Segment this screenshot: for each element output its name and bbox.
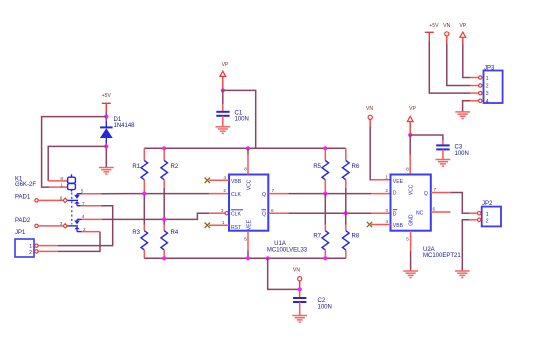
wire top rail — [144, 147, 345, 149]
svg-text:5: 5 — [406, 237, 409, 242]
pin stub U1A pin8 VCC — [247, 148, 249, 174]
node VN (top right power symbol) — [445, 32, 449, 36]
wire VP down to C1 junction — [222, 76, 224, 92]
pin stub U2A pin5 GND — [410, 231, 412, 271]
wire junction to C2 — [299, 289, 301, 297]
wire C3 to ground — [442, 149, 444, 159]
wire C2 branch from rail — [268, 258, 300, 289]
wire JP1 pin2 to relay pin 2 — [38, 232, 100, 252]
wire VN to junction — [299, 281, 301, 290]
svg-text:MC100LVEL33: MC100LVEL33 — [267, 247, 308, 253]
svg-text:U2A: U2A — [423, 247, 435, 253]
svg-text:D: D — [393, 212, 397, 218]
svg-text:CLK: CLK — [231, 192, 242, 198]
svg-text:VP: VP — [459, 23, 466, 29]
svg-text:7: 7 — [434, 187, 437, 192]
svg-text:R5: R5 — [313, 164, 321, 170]
svg-text:R8: R8 — [352, 234, 360, 240]
node +5V (left power symbol) — [102, 103, 111, 111]
svg-text:7: 7 — [272, 188, 275, 193]
svg-text:1: 1 — [486, 76, 489, 82]
node junction rail/R5 — [323, 146, 327, 150]
svg-text:Q: Q — [424, 191, 428, 197]
wire R2/R4 column between CLKbar line and R4 — [163, 219, 165, 230]
ground below C3 — [436, 160, 451, 167]
svg-text:R7: R7 — [313, 234, 321, 240]
wire VP to JP3 pin1 — [463, 37, 479, 77]
pin name Qbar (U1A) — [262, 210, 267, 218]
svg-text:1: 1 — [385, 174, 388, 179]
wire +5V to JP3 pin3 — [429, 40, 478, 93]
ground below JP3 — [455, 112, 470, 119]
svg-text:VCC: VCC — [247, 179, 253, 190]
svg-text:R3: R3 — [132, 230, 140, 236]
pin stub relay pin 1 — [49, 186, 68, 188]
pin circle JP3-1 — [479, 76, 482, 79]
svg-text:R4: R4 — [171, 230, 179, 236]
svg-text:1: 1 — [486, 212, 489, 218]
no-connect X on U1A pin4 — [205, 178, 210, 183]
wire Q line (U1A pin7 to U2A pin2) — [268, 193, 390, 195]
svg-text:PAD1: PAD1 — [15, 195, 31, 201]
node junction VN/C2 — [298, 287, 302, 291]
node junction CLKbar/R2R4 — [162, 217, 166, 221]
connector JP3 — [484, 71, 503, 104]
pin circle JP1-1 — [35, 244, 38, 247]
svg-text:3: 3 — [221, 208, 224, 213]
svg-text:VP: VP — [409, 106, 416, 112]
wire R6/R8 column between Qbar line and R8 — [345, 213, 347, 231]
svg-text:R1: R1 — [132, 164, 140, 170]
relay K1 linkage (dashed) — [71, 193, 73, 225]
svg-text:VN: VN — [293, 268, 300, 274]
svg-text:6: 6 — [433, 207, 436, 212]
wire U2A Q pin7 to JP2 pin1 — [431, 193, 478, 214]
svg-text:VBB: VBB — [231, 179, 242, 185]
capacitor C1 — [216, 112, 229, 116]
clock edge arrow U1A pin 2 — [230, 191, 233, 196]
node B junction at D1 anode — [104, 144, 108, 148]
svg-text:8: 8 — [406, 167, 409, 172]
svg-text:VN: VN — [366, 106, 373, 112]
node junction rail/R2 — [162, 146, 166, 150]
wire C1 to ground — [222, 116, 224, 127]
node junction rail/C2 branch — [266, 256, 270, 260]
resistor R3 — [141, 231, 148, 259]
svg-text:PAD2: PAD2 — [15, 218, 31, 224]
svg-text:D: D — [393, 191, 397, 197]
wire C3 branch — [410, 135, 443, 141]
svg-text:G6K-2F: G6K-2F — [15, 182, 36, 188]
pin circle JP3-2 — [479, 84, 482, 87]
connector JP1 — [15, 239, 34, 257]
wire D1 anode node to relay coil pin 8 — [48, 146, 106, 181]
wire VN down to U2A pin1 — [370, 119, 390, 179]
svg-text:VCC: VCC — [409, 184, 415, 195]
ground below D1 — [99, 168, 114, 175]
relay K1 contact 2 throw pin 4 arrow — [74, 219, 82, 224]
svg-text:+5V: +5V — [429, 23, 439, 29]
wire R2 bottom down to CLKbar line — [163, 188, 165, 219]
wire VN to JP3 pin2 — [447, 36, 479, 86]
node junction Qbar/R6 — [344, 211, 348, 215]
wire +5V node to relay coil pin 1 — [42, 117, 107, 188]
capacitor C3 — [436, 145, 449, 149]
svg-text:1: 1 — [222, 220, 225, 225]
svg-text:+5V: +5V — [102, 93, 112, 99]
svg-text:R2: R2 — [171, 164, 179, 170]
pin stub relay pin 8 — [48, 180, 67, 182]
pin stub U1A pin1 RST with no-connect — [209, 224, 229, 226]
svg-text:100N: 100N — [235, 117, 249, 123]
svg-text:2: 2 — [223, 188, 226, 193]
svg-text:JP2: JP2 — [482, 201, 493, 207]
node junction rail/R7 bottom — [323, 256, 327, 260]
diode D1 — [100, 121, 113, 143]
ground below C2 — [292, 316, 307, 323]
node VN (bottom power symbol) — [298, 277, 302, 281]
wire bottom rail — [144, 257, 345, 259]
ground below JP2 wire — [455, 271, 470, 278]
svg-text:VN: VN — [443, 23, 450, 29]
resistor R5 — [322, 148, 329, 193]
relay K1 contact 2 common — [67, 225, 78, 227]
pin stub U1A pin5 VEE — [247, 231, 249, 259]
node VN (right power symbol) — [368, 115, 372, 119]
relay K1 contact 1 common terminal diamond pin 6 — [63, 198, 67, 202]
wire to C3 top — [442, 141, 444, 145]
node junction VP/C1 — [221, 88, 225, 92]
relay K1 contact 1 common — [67, 199, 78, 201]
svg-text:VEE: VEE — [393, 179, 404, 185]
pin bubble U1A pin 3 — [225, 212, 228, 215]
wire JP1 pin1 to relay pin 7 — [38, 206, 113, 246]
op-amp U1 box (MC100LVEL33) — [229, 175, 268, 231]
pad PAD1 — [35, 199, 38, 202]
svg-text:2: 2 — [486, 219, 489, 225]
svg-text:4: 4 — [486, 99, 489, 105]
svg-text:4: 4 — [385, 219, 388, 224]
svg-text:VEE: VEE — [247, 219, 253, 230]
node junction rail/U1A VEE — [246, 256, 250, 260]
svg-text:U1A: U1A — [274, 241, 286, 247]
wire CLKbar line (relay pin4 to U1A pin3) — [82, 213, 225, 219]
svg-text:GND: GND — [409, 214, 415, 226]
svg-text:1: 1 — [60, 182, 63, 187]
svg-text:8: 8 — [60, 176, 63, 181]
svg-text:VBB: VBB — [393, 223, 404, 229]
pin name Dbar (U2A) — [393, 210, 397, 218]
resistor R8 — [343, 231, 350, 259]
pin circle JP3-3 — [479, 91, 482, 94]
resistor R6 — [343, 148, 350, 188]
node junction rail/U1A VCC — [246, 146, 250, 150]
relay K1 contact 2 common terminal diamond pin 3 — [63, 224, 67, 228]
ground below C1 — [215, 127, 230, 134]
capacitor C2 — [293, 298, 306, 302]
svg-text:3: 3 — [385, 208, 388, 213]
svg-text:5: 5 — [244, 237, 247, 242]
connector JP2 — [482, 207, 501, 227]
wire PAD1 to relay pin 6 — [38, 199, 62, 201]
relay K1 contact 2 throw pin 2 arrow — [74, 227, 82, 232]
svg-text:4: 4 — [223, 175, 226, 180]
pin stub U2A pin6 NC — [431, 211, 451, 213]
svg-text:2: 2 — [29, 250, 32, 256]
wire VP junction to U2A VCC pin8 — [409, 135, 411, 175]
node junction Q/R5 — [323, 192, 327, 196]
wire R1/R3 column between CLK line and R3 — [143, 194, 145, 231]
svg-text:2: 2 — [385, 188, 388, 193]
no-connect X on U1A pin1 — [205, 223, 210, 228]
pad PAD2 — [35, 224, 38, 227]
svg-text:100N: 100N — [318, 304, 332, 310]
wire VP down to junction — [409, 122, 411, 137]
wire PAD2 to relay pin 3 — [38, 225, 62, 227]
pin circle JP2-1 — [478, 212, 481, 215]
svg-text:MC100EPT21: MC100EPT21 — [423, 253, 461, 259]
node VP (center power symbol) — [220, 71, 226, 76]
resistor R1 — [141, 148, 148, 193]
svg-text:R6: R6 — [352, 164, 360, 170]
svg-text:C2: C2 — [318, 298, 326, 304]
svg-text:2: 2 — [486, 84, 489, 90]
wire VP junction down to C1 — [222, 90, 224, 111]
svg-text:Q: Q — [262, 212, 266, 218]
svg-text:1N4148: 1N4148 — [114, 123, 136, 129]
node VP (top right power symbol) — [460, 32, 466, 37]
svg-text:3: 3 — [486, 91, 489, 97]
wire R6 bottom down to Qbar line — [345, 188, 347, 213]
wire VP junction branch to top rail — [223, 90, 256, 148]
svg-text:CLK: CLK — [231, 212, 242, 218]
svg-text:JP3: JP3 — [484, 66, 495, 72]
wire JP3 pin4 to ground — [463, 101, 479, 112]
pin circle JP3-4 — [479, 99, 482, 102]
resistor R2 — [161, 148, 168, 188]
svg-text:C1: C1 — [235, 110, 243, 116]
pin circle JP2-2 — [478, 218, 481, 221]
wire CLK line (relay pin5 to U1A pin2) — [82, 193, 230, 195]
svg-text:RST: RST — [231, 225, 241, 231]
pin stub U2A pin4 VBB with no-connect — [371, 224, 391, 226]
node junction VP/C3 — [408, 133, 412, 137]
node A junction at D1 cathode — [104, 115, 108, 119]
relay K1 contact 1 throw pin 5 arrow — [74, 194, 81, 199]
svg-text:100N: 100N — [455, 151, 469, 157]
node +5V (top right power symbol) — [425, 32, 434, 40]
wire R5/R7 column between Q line and R7 — [324, 194, 326, 231]
wire C2 to ground — [299, 302, 301, 315]
svg-text:NC: NC — [416, 211, 424, 217]
wire D1 anode to ground node — [105, 143, 107, 167]
relay K1 contact 1 throw pin 7 arrow — [74, 201, 81, 206]
resistor R4 — [161, 231, 168, 259]
svg-text:Q: Q — [262, 192, 266, 198]
pin stub U1A pin4 VBB with no-connect — [209, 179, 229, 181]
svg-text:4: 4 — [82, 214, 85, 219]
resistor R7 — [322, 231, 329, 259]
IC U2 box (MC100EPT21) — [391, 175, 431, 231]
wire JP2 pin2 to ground — [462, 220, 477, 271]
node junction rail/R4 bottom — [162, 256, 166, 260]
svg-text:VP: VP — [222, 62, 229, 68]
svg-text:8: 8 — [244, 167, 247, 172]
svg-text:JP1: JP1 — [15, 230, 26, 236]
svg-text:1: 1 — [29, 244, 32, 250]
svg-text:5: 5 — [81, 188, 84, 193]
wire Qbar line (U1A pin6 to U2A pin3) — [268, 212, 390, 214]
wire +5V to D1 cathode node — [105, 112, 107, 121]
node junction CLK/R1 — [142, 192, 146, 196]
svg-text:C3: C3 — [455, 145, 463, 151]
node VP (right power symbol) — [407, 116, 413, 121]
relay K1 coil — [68, 174, 76, 191]
pin name CLKbar (U1A) — [231, 210, 243, 218]
svg-text:6: 6 — [271, 208, 274, 213]
ground below U2A — [403, 271, 418, 278]
no-connect X on U2A pin4 — [367, 222, 372, 227]
pin circle JP1-2 — [35, 250, 38, 253]
